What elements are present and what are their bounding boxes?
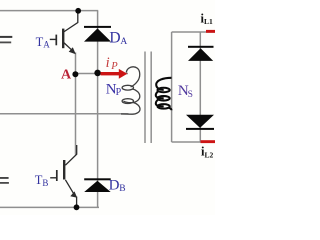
transformer core line 1 (144, 52, 146, 144)
capacitor C1 bottom plate (0, 42, 11, 44)
wire secondary frame top (172, 31, 215, 33)
inductor primary N_P (121, 67, 140, 114)
wire node A to primary (76, 73, 129, 75)
diode D_A (84, 26, 111, 42)
svg-text:P: P (110, 61, 118, 72)
capacitor C2 bottom plate (0, 182, 9, 184)
wire left-cell diode branch (97, 11, 99, 208)
svg-text:B: B (119, 184, 125, 194)
wire secondary frame bottom (172, 141, 215, 143)
svg-text:A: A (61, 68, 72, 83)
capacitor C2 top plate (0, 177, 9, 179)
node dot bottom rail (74, 204, 80, 210)
wire secondary frame left (171, 32, 173, 142)
diode rectifier top (188, 46, 214, 61)
svg-text:A: A (43, 40, 50, 50)
current arrow i_L2 (201, 140, 216, 143)
transistor T_A (50, 11, 78, 54)
svg-text:i: i (106, 55, 110, 71)
svg-text:A: A (120, 37, 127, 47)
transformer core line 2 (150, 52, 152, 144)
current arrow i_L1 (206, 30, 216, 33)
wire bottom rail (0, 206, 99, 208)
wire middle return (0, 113, 129, 115)
svg-text:D: D (109, 29, 120, 46)
svg-text:L1: L1 (204, 17, 213, 26)
diode rectifier bottom (186, 115, 214, 130)
svg-text:S: S (188, 90, 193, 100)
wire phase leg (75, 52, 77, 154)
wire rectifier branch (199, 32, 201, 142)
wire top rail (0, 10, 98, 12)
svg-text:P: P (116, 87, 122, 98)
transistor T_B (50, 145, 77, 207)
svg-text:B: B (42, 178, 48, 188)
node dot on top rail (75, 8, 81, 14)
capacitor C1 top plate (0, 36, 12, 38)
node A dot (72, 71, 78, 77)
current arrow i_P (101, 69, 128, 79)
diode D_B (84, 178, 111, 192)
node dot at diode branch (94, 70, 101, 77)
svg-text:D: D (109, 177, 120, 193)
inductor secondary N_S (156, 78, 172, 111)
svg-text:L2: L2 (205, 151, 214, 160)
